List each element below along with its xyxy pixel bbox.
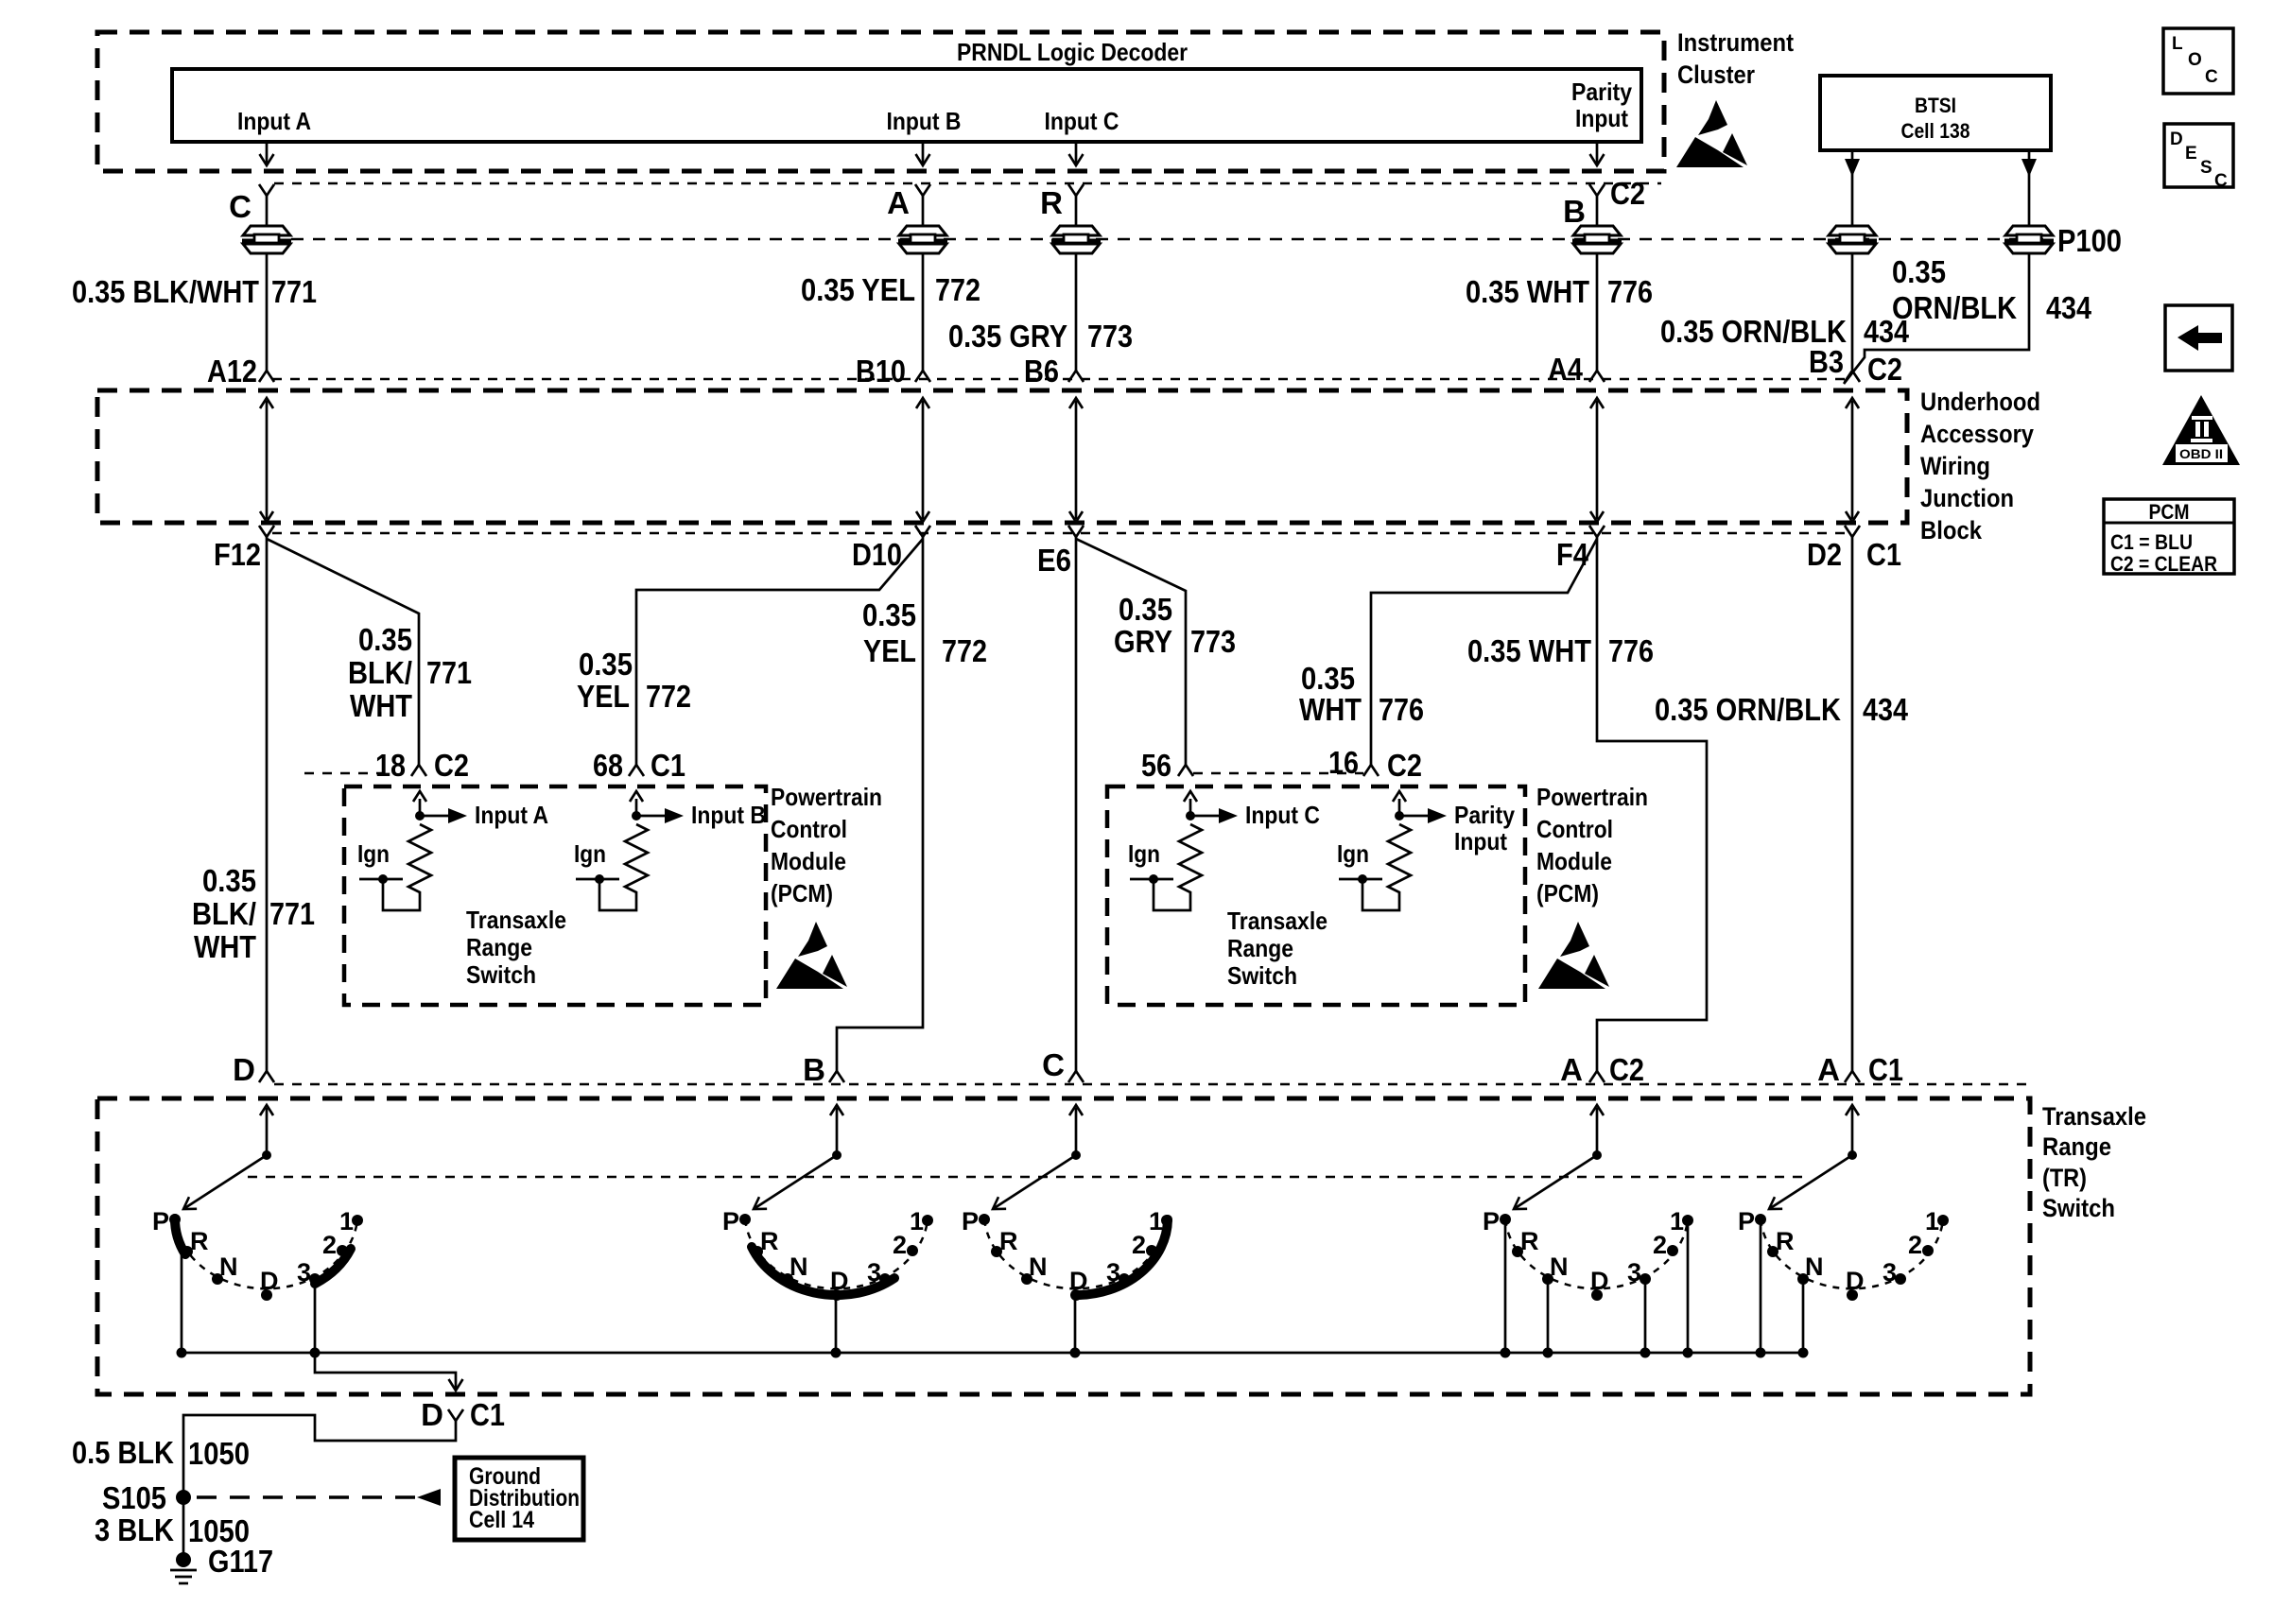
svg-text:0.35 BLK/WHT: 0.35 BLK/WHT — [72, 274, 259, 309]
svg-text:Ign: Ign — [574, 839, 606, 868]
svg-text:P: P — [722, 1207, 739, 1235]
svg-text:3: 3 — [297, 1258, 311, 1287]
svg-text:BTSI: BTSI — [1915, 94, 1956, 117]
svg-text:L: L — [2172, 34, 2183, 54]
svg-text:E6: E6 — [1037, 543, 1071, 578]
svg-text:(PCM): (PCM) — [1536, 879, 1599, 907]
svg-text:F12: F12 — [214, 537, 261, 572]
svg-text:776: 776 — [1608, 633, 1654, 668]
svg-text:772: 772 — [942, 633, 987, 668]
svg-text:D2: D2 — [1807, 537, 1842, 572]
svg-text:Control: Control — [771, 815, 847, 843]
svg-text:C1: C1 — [470, 1397, 505, 1432]
svg-text:Block: Block — [1920, 516, 1983, 544]
svg-text:0.35: 0.35 — [579, 647, 633, 682]
svg-text:Transaxle: Transaxle — [2042, 1102, 2146, 1131]
svg-text:Parity: Parity — [1571, 78, 1632, 106]
svg-text:0.35 WHT: 0.35 WHT — [1467, 633, 1591, 668]
svg-text:1: 1 — [1670, 1207, 1684, 1235]
svg-text:(TR): (TR) — [2042, 1164, 2087, 1192]
svg-text:1: 1 — [1149, 1207, 1163, 1235]
svg-text:776: 776 — [1379, 692, 1424, 727]
svg-text:D: D — [421, 1397, 443, 1432]
svg-text:Transaxle: Transaxle — [1227, 907, 1327, 935]
svg-text:C1: C1 — [1868, 1052, 1903, 1087]
svg-text:D: D — [830, 1267, 849, 1295]
svg-text:PCM: PCM — [2149, 500, 2190, 524]
svg-text:1: 1 — [339, 1207, 354, 1235]
svg-text:0.5 BLK: 0.5 BLK — [72, 1435, 174, 1470]
svg-text:3: 3 — [1883, 1258, 1897, 1287]
svg-text:N: N — [789, 1253, 808, 1281]
svg-text:YEL: YEL — [577, 679, 630, 714]
svg-text:0.35: 0.35 — [1301, 661, 1355, 696]
svg-text:P: P — [152, 1207, 169, 1235]
svg-text:16: 16 — [1328, 745, 1359, 780]
svg-text:3 BLK: 3 BLK — [95, 1512, 174, 1547]
svg-text:2: 2 — [1908, 1231, 1922, 1259]
svg-text:R: R — [190, 1227, 209, 1255]
svg-text:P: P — [1738, 1207, 1755, 1235]
svg-text:18: 18 — [375, 748, 406, 783]
svg-text:C1: C1 — [1866, 537, 1901, 572]
svg-text:C2: C2 — [1610, 176, 1645, 211]
svg-text:A4: A4 — [1548, 352, 1584, 387]
svg-text:N: N — [1805, 1253, 1824, 1281]
svg-text:0.35 ORN/BLK: 0.35 ORN/BLK — [1655, 692, 1841, 727]
svg-text:WHT: WHT — [350, 688, 412, 723]
svg-text:N: N — [1029, 1253, 1048, 1281]
svg-text:OBD II: OBD II — [2179, 446, 2223, 461]
svg-text:Parity: Parity — [1454, 801, 1515, 829]
svg-text:(PCM): (PCM) — [771, 879, 833, 907]
svg-text:S105: S105 — [102, 1480, 166, 1515]
svg-text:2: 2 — [1132, 1231, 1146, 1259]
svg-text:Input B: Input B — [691, 801, 766, 829]
svg-text:D: D — [1846, 1267, 1865, 1295]
svg-text:Ign: Ign — [357, 839, 390, 868]
svg-text:Junction: Junction — [1920, 484, 2014, 512]
svg-text:R: R — [1520, 1227, 1539, 1255]
svg-text:Wiring: Wiring — [1920, 452, 1990, 480]
svg-text:A: A — [887, 185, 910, 220]
svg-text:0.35: 0.35 — [1892, 254, 1946, 289]
svg-text:Switch: Switch — [1227, 961, 1297, 990]
svg-text:G117: G117 — [208, 1544, 273, 1579]
svg-text:C: C — [2214, 171, 2228, 191]
svg-text:WHT: WHT — [194, 929, 256, 964]
svg-text:B6: B6 — [1024, 354, 1059, 389]
svg-text:773: 773 — [1190, 624, 1236, 659]
svg-text:C1: C1 — [651, 748, 685, 783]
svg-text:R: R — [1040, 185, 1063, 220]
svg-text:B10: B10 — [856, 354, 906, 389]
svg-text:0.35: 0.35 — [862, 597, 916, 632]
svg-text:C2: C2 — [434, 748, 469, 783]
svg-text:2: 2 — [322, 1231, 337, 1259]
svg-text:D: D — [1590, 1267, 1609, 1295]
svg-text:Instrument: Instrument — [1677, 28, 1794, 57]
svg-text:771: 771 — [426, 655, 472, 690]
svg-text:0.35 GRY: 0.35 GRY — [948, 319, 1067, 354]
svg-text:0.35: 0.35 — [202, 863, 256, 898]
svg-text:Accessory: Accessory — [1920, 420, 2034, 448]
svg-text:0.35 WHT: 0.35 WHT — [1466, 274, 1589, 309]
svg-text:E: E — [2185, 144, 2197, 164]
svg-text:D: D — [2170, 130, 2183, 149]
svg-text:3: 3 — [1627, 1258, 1641, 1287]
svg-text:Input C: Input C — [1245, 801, 1320, 829]
svg-text:0.35 YEL: 0.35 YEL — [801, 272, 915, 307]
svg-text:Range: Range — [466, 933, 532, 961]
svg-text:434: 434 — [1864, 314, 1910, 349]
svg-text:Transaxle: Transaxle — [466, 906, 566, 934]
svg-text:68: 68 — [593, 748, 623, 783]
svg-text:Control: Control — [1536, 815, 1613, 843]
svg-text:771: 771 — [271, 274, 317, 309]
svg-text:434: 434 — [2046, 290, 2092, 325]
svg-text:D10: D10 — [852, 537, 902, 572]
svg-text:3: 3 — [1106, 1258, 1120, 1287]
svg-text:Input: Input — [1575, 104, 1628, 132]
svg-text:0.35: 0.35 — [358, 622, 412, 657]
svg-text:GRY: GRY — [1114, 624, 1172, 659]
svg-text:C2 = CLEAR: C2 = CLEAR — [2110, 552, 2217, 576]
svg-text:S: S — [2200, 158, 2212, 178]
svg-text:0.35: 0.35 — [1119, 592, 1172, 627]
svg-text:P100: P100 — [2057, 223, 2122, 258]
svg-text:ORN/BLK: ORN/BLK — [1892, 290, 2017, 325]
svg-text:3: 3 — [867, 1258, 881, 1287]
svg-text:C2: C2 — [1867, 352, 1902, 387]
svg-text:Powertrain: Powertrain — [771, 783, 882, 811]
svg-text:Input: Input — [1454, 827, 1507, 855]
svg-text:P: P — [1483, 1207, 1500, 1235]
svg-text:Underhood: Underhood — [1920, 388, 2040, 416]
svg-text:A12: A12 — [207, 354, 257, 389]
svg-text:R: R — [760, 1227, 779, 1255]
svg-text:A: A — [1560, 1052, 1583, 1087]
svg-text:C: C — [2205, 67, 2218, 87]
svg-text:2: 2 — [1653, 1231, 1667, 1259]
svg-text:773: 773 — [1087, 319, 1133, 354]
svg-text:Ign: Ign — [1337, 839, 1369, 868]
svg-text:Module: Module — [771, 847, 846, 875]
svg-text:P: P — [962, 1207, 979, 1235]
svg-text:772: 772 — [646, 679, 691, 714]
svg-text:Module: Module — [1536, 847, 1612, 875]
svg-text:N: N — [219, 1253, 238, 1281]
svg-text:2: 2 — [893, 1231, 907, 1259]
svg-text:O: O — [2188, 50, 2202, 70]
svg-text:434: 434 — [1863, 692, 1909, 727]
svg-text:PRNDL Logic Decoder: PRNDL Logic Decoder — [957, 38, 1188, 66]
svg-text:D: D — [233, 1052, 255, 1087]
svg-text:C1 = BLU: C1 = BLU — [2110, 530, 2193, 554]
svg-text:WHT: WHT — [1299, 692, 1362, 727]
svg-text:Input A: Input A — [237, 107, 311, 135]
svg-text:Input B: Input B — [887, 107, 962, 135]
svg-text:A: A — [1817, 1052, 1840, 1087]
svg-text:1: 1 — [1925, 1207, 1939, 1235]
svg-text:C2: C2 — [1387, 748, 1422, 783]
svg-text:F4: F4 — [1556, 537, 1589, 572]
svg-text:BLK/: BLK/ — [192, 896, 256, 931]
svg-text:56: 56 — [1141, 748, 1171, 783]
svg-text:C: C — [229, 189, 252, 224]
svg-text:Range: Range — [1227, 934, 1293, 962]
svg-text:C: C — [1042, 1047, 1065, 1082]
svg-text:Input C: Input C — [1045, 107, 1119, 135]
svg-text:YEL: YEL — [863, 633, 916, 668]
svg-text:C2: C2 — [1609, 1052, 1644, 1087]
svg-text:Range: Range — [2042, 1132, 2111, 1161]
svg-text:D: D — [1069, 1267, 1088, 1295]
svg-text:Powertrain: Powertrain — [1536, 783, 1648, 811]
svg-text:B: B — [803, 1052, 825, 1087]
svg-text:BLK/: BLK/ — [348, 655, 412, 690]
svg-text:772: 772 — [935, 272, 980, 307]
svg-text:D: D — [260, 1267, 279, 1295]
svg-text:R: R — [999, 1227, 1018, 1255]
svg-text:Switch: Switch — [2042, 1194, 2115, 1222]
svg-text:1050: 1050 — [188, 1436, 250, 1471]
svg-text:Cell 14: Cell 14 — [469, 1507, 534, 1533]
svg-text:Ign: Ign — [1128, 839, 1160, 868]
svg-text:Switch: Switch — [466, 960, 536, 989]
svg-text:N: N — [1550, 1253, 1569, 1281]
svg-text:776: 776 — [1607, 274, 1653, 309]
svg-text:Cluster: Cluster — [1677, 60, 1755, 89]
svg-text:R: R — [1776, 1227, 1795, 1255]
svg-text:Cell 138: Cell 138 — [1901, 119, 1970, 143]
svg-text:1: 1 — [910, 1207, 924, 1235]
svg-text:B: B — [1563, 194, 1586, 229]
svg-text:771: 771 — [269, 896, 315, 931]
svg-text:Input A: Input A — [475, 801, 548, 829]
svg-text:B3: B3 — [1809, 344, 1844, 379]
